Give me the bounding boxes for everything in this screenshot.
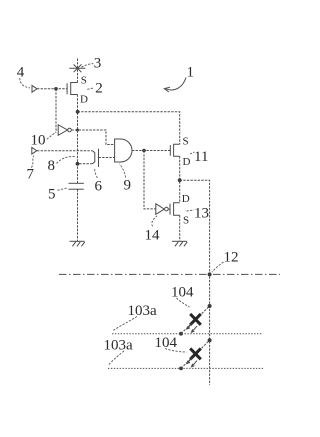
scan line 103a (first row) [112, 333, 262, 335]
label 104 (first) with leader [171, 285, 194, 308]
wire: gate line of transistor 2 from input 4 [37, 88, 67, 90]
input arrow 7 [32, 147, 37, 154]
wire: signal 7 input line to transistor 6 [37, 150, 93, 152]
scan line 103a (second row) [108, 367, 264, 369]
wire: inverter 10 output to AND gate top input [71, 130, 114, 145]
pin label D of transistor 2 [80, 94, 88, 106]
AND gate 9 [115, 139, 132, 162]
label 5 with leader [48, 187, 68, 203]
wire: main column (drain of 2 down to capacitor 5) [77, 95, 79, 184]
svg-text:12: 12 [224, 250, 239, 266]
pin label D of transistor 11 [183, 156, 191, 168]
transistor 11 (channel with jog + gate bar) [170, 144, 179, 156]
svg-text:S: S [81, 75, 87, 87]
ground (under capacitor 5) [70, 241, 85, 246]
terminal 3 (crossed wire-end symbol) [69, 64, 85, 72]
capacitor C5 [69, 183, 84, 189]
ground (under transistor 13) [172, 241, 187, 246]
svg-text:D: D [80, 94, 88, 106]
label 6 with leader [95, 168, 103, 195]
label 7 with leader [27, 156, 35, 183]
node 8 (storage node junction) [76, 162, 80, 166]
node 12 (column crossing boundary) [208, 272, 212, 276]
label 104 (second) with leader [155, 335, 187, 352]
label 14 with leader [145, 216, 161, 244]
pin label S of transistor 11 [183, 136, 189, 148]
pin label D of transistor 13 [182, 193, 190, 205]
pin label S of transistor 2 [81, 75, 87, 87]
svg-text:2: 2 [95, 81, 103, 97]
node: junction of gate line and inverter-10 branch [54, 87, 58, 91]
diode/LED 104 (second) [181, 340, 210, 368]
label 11 with leader [190, 149, 208, 165]
diode/LED 104 (first) [181, 306, 210, 334]
svg-text:10: 10 [31, 132, 46, 148]
label 4 with curved leader [17, 65, 30, 88]
wire: bottom lead of transistor 6 to storage node [78, 163, 93, 165]
wire: gate of 6 to AND gate bottom input [99, 157, 115, 159]
node: output branch junction [178, 178, 182, 182]
label 103a (first) with leader [113, 303, 158, 331]
svg-text:103a: 103a [128, 303, 158, 319]
svg-text:103a: 103a [104, 338, 134, 354]
wire: capacitor bottom plate to ground [77, 189, 79, 241]
svg-text:8: 8 [48, 158, 56, 174]
wire: branch down to inverter 10 input [56, 89, 58, 130]
op-amp/inverter 14 (triangle with bubble) [156, 204, 170, 215]
svg-text:S: S [183, 215, 189, 227]
svg-text:1: 1 [187, 65, 195, 81]
boundary line 12 (dash-dot) [59, 273, 280, 275]
node: LED 104 (first) cathode on column [208, 304, 212, 308]
svg-text:7: 7 [27, 167, 35, 183]
wire: drain of 11 down to drain of 13 [179, 156, 181, 203]
wire: drain row over to transistor 11 source [78, 112, 180, 144]
label 13 with leader [187, 206, 210, 222]
svg-text:D: D [183, 156, 191, 168]
svg-text:14: 14 [145, 228, 161, 244]
pin label S of transistor 13 [183, 215, 189, 227]
label 12 with leader [212, 250, 239, 273]
svg-text:6: 6 [95, 179, 103, 195]
svg-text:5: 5 [48, 187, 56, 203]
svg-text:3: 3 [94, 56, 102, 72]
wire: supply stub above terminal 3 [77, 59, 79, 83]
label 2 with leader [87, 81, 102, 97]
wire: AND output to gate of transistor 11 [132, 150, 170, 152]
svg-text:4: 4 [17, 65, 25, 81]
label 103a (second) with leader [104, 338, 134, 366]
label 3 with leader [82, 56, 102, 72]
node: drain of transistor 2 [76, 110, 80, 114]
label 1 with curved arrow [164, 65, 194, 93]
label 8 with leader [48, 156, 75, 174]
label 10 with leader [31, 132, 57, 149]
svg-text:D: D [182, 193, 190, 205]
transistor 2 (channel with jog + gate bar) [67, 83, 77, 95]
svg-text:9: 9 [124, 178, 132, 194]
node: LED 104 (second) anode on scan line [179, 367, 183, 371]
label 9 with leader [120, 164, 131, 194]
input arrow 4 [32, 85, 37, 92]
wire: source of 13 to ground [179, 215, 181, 241]
svg-text:13: 13 [194, 206, 209, 222]
svg-text:S: S [183, 136, 189, 148]
node: LED 104 (second) cathode on column [208, 338, 212, 342]
node: LED 104 (first) anode on scan line [179, 332, 183, 336]
node: inverter output crossing main column [76, 129, 79, 132]
transistor 13 (channel with jog + gate bar) [170, 203, 180, 216]
wire: branch right and down to pixel column [180, 180, 210, 385]
svg-text:104: 104 [171, 285, 194, 301]
wire: branch from AND output down to inverter 14 [144, 151, 156, 209]
transistor 6 (channel + right-side gate bar) [93, 149, 99, 167]
node: branch to inverter 14 [142, 149, 146, 153]
svg-text:11: 11 [194, 149, 208, 165]
op-amp/inverter 10 (triangle with bubble) [58, 125, 71, 136]
